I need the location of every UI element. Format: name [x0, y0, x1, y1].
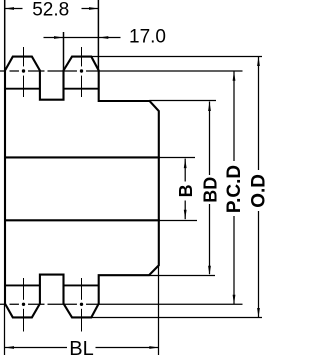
svg-text:BD: BD: [201, 177, 221, 203]
svg-text:B: B: [176, 184, 196, 197]
svg-text:52.8: 52.8: [32, 0, 69, 21]
svg-text:17.0: 17.0: [129, 27, 166, 48]
svg-text:P.C.D: P.C.D: [224, 165, 245, 213]
svg-text:O.D: O.D: [249, 174, 270, 208]
svg-text:BL: BL: [69, 338, 93, 360]
